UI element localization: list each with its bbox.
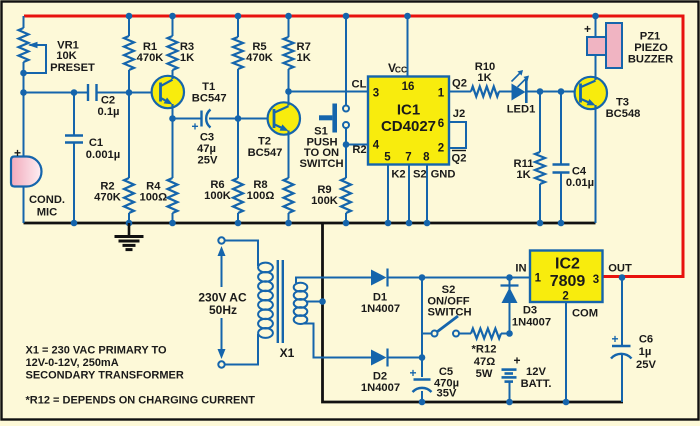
pin 16 Vcc stub xyxy=(407,16,409,77)
wire xyxy=(621,355,623,403)
junction xyxy=(537,88,544,95)
wire xyxy=(539,184,541,223)
svg-text:R1: R1 xyxy=(143,41,157,53)
svg-text:BC547: BC547 xyxy=(192,93,227,105)
resistor R5 xyxy=(233,37,273,69)
transformer X1 primary coil xyxy=(258,263,295,360)
svg-text:1: 1 xyxy=(438,88,445,100)
wire xyxy=(128,70,130,93)
wire xyxy=(595,16,597,38)
capacitor C6 xyxy=(611,332,656,371)
svg-text:CL: CL xyxy=(352,79,367,91)
junction xyxy=(404,13,411,20)
svg-text:SWITCH: SWITCH xyxy=(299,158,343,170)
svg-text:COM: COM xyxy=(572,308,598,320)
resistor R1 xyxy=(124,36,163,70)
wire R2 pin4 net xyxy=(346,144,368,146)
svg-text:50Hz: 50Hz xyxy=(209,303,237,317)
wire xyxy=(23,16,25,28)
resistor R12 xyxy=(471,329,501,381)
svg-text:R5: R5 xyxy=(252,41,266,53)
wire T2 base xyxy=(238,118,274,120)
svg-text:SWITCH: SWITCH xyxy=(427,307,471,319)
diode D1 xyxy=(361,269,400,316)
wire xyxy=(345,16,347,105)
svg-text:3: 3 xyxy=(593,274,599,286)
svg-text:25V: 25V xyxy=(198,155,218,167)
wire xyxy=(288,213,290,223)
junction xyxy=(506,274,513,281)
wire xyxy=(345,128,347,145)
svg-text:OUT: OUT xyxy=(608,263,632,275)
wire xyxy=(172,105,174,119)
svg-text:5: 5 xyxy=(384,152,391,164)
resistor R4 xyxy=(139,178,177,213)
resistor R8 xyxy=(247,178,294,213)
wire xyxy=(225,241,258,267)
svg-text:+: + xyxy=(14,146,21,160)
wire xyxy=(595,106,597,224)
wire xyxy=(449,91,471,93)
svg-text:8: 8 xyxy=(423,152,430,164)
junction xyxy=(406,220,413,227)
svg-text:BC547: BC547 xyxy=(248,147,283,159)
wire xyxy=(528,91,581,93)
wire xyxy=(172,16,174,36)
resistor R3 xyxy=(168,36,195,70)
junction xyxy=(506,330,513,337)
junction xyxy=(126,220,133,227)
junction xyxy=(563,399,570,406)
wire xyxy=(128,16,130,36)
svg-text:+: + xyxy=(611,332,618,346)
svg-text:C3: C3 xyxy=(200,132,214,144)
svg-text:25V: 25V xyxy=(636,359,656,371)
svg-text:7809: 7809 xyxy=(550,273,586,290)
svg-text:12V: 12V xyxy=(526,366,546,378)
LED LED1 xyxy=(507,70,536,116)
junction xyxy=(537,220,544,227)
svg-text:0.001µ: 0.001µ xyxy=(86,149,120,161)
svg-text:T1: T1 xyxy=(202,81,215,93)
wire xyxy=(501,333,510,335)
wire xyxy=(73,93,75,136)
junction xyxy=(619,274,626,281)
svg-text:470K: 470K xyxy=(94,192,121,204)
junction xyxy=(285,13,292,20)
svg-text:C4: C4 xyxy=(572,166,587,178)
junction xyxy=(285,88,292,95)
junction xyxy=(558,220,565,227)
wire xyxy=(388,277,423,279)
junction xyxy=(20,70,27,77)
svg-text:C2: C2 xyxy=(101,95,115,107)
svg-text:BC548: BC548 xyxy=(606,108,641,120)
junction xyxy=(169,220,176,227)
wire T1 base xyxy=(129,92,161,94)
resistor R11 xyxy=(514,152,545,184)
svg-text:35V: 35V xyxy=(437,388,457,400)
svg-text:R3: R3 xyxy=(180,41,194,53)
svg-text:0.01µ: 0.01µ xyxy=(566,177,594,189)
wire secondary bottom xyxy=(303,324,371,358)
wire xyxy=(237,16,239,37)
svg-text:470K: 470K xyxy=(137,52,164,64)
junction xyxy=(343,13,350,20)
svg-text:100Ω: 100Ω xyxy=(139,192,167,204)
wire xyxy=(172,119,174,179)
junction xyxy=(343,141,350,148)
svg-text:1K: 1K xyxy=(297,52,311,64)
svg-text:*R12: *R12 xyxy=(472,344,497,356)
wire CL net xyxy=(289,91,369,93)
wire ground return to lower section xyxy=(323,223,624,402)
wire xyxy=(509,382,511,402)
svg-text:+: + xyxy=(409,366,416,380)
pin 8 stub xyxy=(426,165,428,224)
svg-text:Q2: Q2 xyxy=(452,78,467,90)
resistor R10 xyxy=(471,61,499,97)
junction xyxy=(319,298,326,305)
wire xyxy=(288,16,290,37)
junction xyxy=(506,399,513,406)
junction xyxy=(285,220,292,227)
svg-text:100K: 100K xyxy=(204,190,231,202)
svg-text:2: 2 xyxy=(438,143,444,155)
transistor T3 xyxy=(575,77,641,120)
wire xyxy=(237,119,239,179)
svg-text:Q2: Q2 xyxy=(452,153,467,165)
wire xyxy=(499,91,512,93)
svg-text:T3: T3 xyxy=(616,97,629,109)
transistor T2 xyxy=(248,102,300,159)
wire xyxy=(172,213,174,223)
svg-text:BATT.: BATT. xyxy=(521,378,552,390)
diode D3 xyxy=(501,286,552,329)
svg-text:R7: R7 xyxy=(297,41,311,53)
capacitor C5 xyxy=(409,366,459,400)
svg-text:S2: S2 xyxy=(442,284,456,296)
junction xyxy=(169,13,176,20)
wire secondary centre tap xyxy=(306,301,323,303)
svg-text:CC: CC xyxy=(395,65,407,75)
pin 2 COM stub xyxy=(565,302,567,402)
svg-text:D2: D2 xyxy=(373,371,387,383)
junction xyxy=(235,220,242,227)
junction xyxy=(592,13,599,20)
IC IC1 CD4027 xyxy=(368,77,449,165)
junction xyxy=(343,220,350,227)
svg-text:COND.: COND. xyxy=(29,194,65,206)
svg-text:S2: S2 xyxy=(413,169,427,181)
wire ground bus xyxy=(24,222,596,225)
svg-text:3: 3 xyxy=(373,88,379,100)
svg-text:1K: 1K xyxy=(516,169,530,181)
capacitor C1 xyxy=(65,136,120,162)
svg-text:BUZZER: BUZZER xyxy=(628,54,673,66)
piezo buzzer PZ1 xyxy=(584,22,673,68)
junction xyxy=(424,220,431,227)
battery 12V xyxy=(502,354,552,390)
junction xyxy=(235,115,242,122)
svg-text:47µ: 47µ xyxy=(197,143,216,155)
pin 7 stub xyxy=(408,165,410,224)
wire xyxy=(621,278,623,347)
wire xyxy=(421,278,423,378)
wire secondary top xyxy=(296,278,371,284)
resistor R9 xyxy=(311,178,351,213)
wire xyxy=(595,55,597,77)
pin 5 stub xyxy=(387,165,389,224)
wire xyxy=(345,213,347,223)
svg-text:PIEZO: PIEZO xyxy=(634,42,668,54)
svg-text:C6: C6 xyxy=(639,334,653,346)
junction xyxy=(235,13,242,20)
resistor R7 xyxy=(284,37,311,69)
svg-text:D1: D1 xyxy=(373,292,387,304)
svg-text:IC1: IC1 xyxy=(397,102,420,119)
svg-text:R2: R2 xyxy=(100,181,114,193)
svg-text:6: 6 xyxy=(438,118,444,130)
capacitor C2 xyxy=(88,84,120,118)
wire xyxy=(421,391,423,402)
svg-text:IN: IN xyxy=(515,263,526,275)
wire xyxy=(345,145,347,179)
wire J2 feedback xyxy=(449,122,466,148)
junction xyxy=(558,88,565,95)
IC IC2 7809 xyxy=(530,251,603,303)
svg-text:R9: R9 xyxy=(317,184,331,196)
transformer X1 primary terminals xyxy=(218,237,224,367)
svg-text:1N4007: 1N4007 xyxy=(512,317,551,329)
junction xyxy=(169,115,176,122)
push switch S1 xyxy=(299,104,349,171)
wire xyxy=(560,173,562,224)
svg-text:12V-0-12V, 250mA: 12V-0-12V, 250mA xyxy=(26,357,119,369)
junction xyxy=(419,274,426,281)
capacitor C3 xyxy=(191,110,217,167)
svg-text:X1 = 230 VAC PRIMARY TO: X1 = 230 VAC PRIMARY TO xyxy=(26,345,168,357)
svg-text:PZ1: PZ1 xyxy=(640,31,661,43)
svg-text:LED1: LED1 xyxy=(507,104,536,116)
svg-text:IC2: IC2 xyxy=(555,256,580,273)
switch S2 xyxy=(422,284,472,337)
svg-text:1N4007: 1N4007 xyxy=(361,303,400,315)
svg-text:PRESET: PRESET xyxy=(50,62,95,74)
wire xyxy=(23,62,25,93)
wire xyxy=(459,333,471,335)
svg-text:R8: R8 xyxy=(253,179,267,191)
svg-text:100K: 100K xyxy=(311,195,338,207)
svg-text:10K: 10K xyxy=(56,50,77,62)
wire xyxy=(225,334,258,365)
svg-text:CD4027: CD4027 xyxy=(381,118,436,135)
ground xyxy=(115,223,144,250)
svg-text:+: + xyxy=(513,354,520,368)
transistor T1 xyxy=(152,76,227,108)
wire xyxy=(539,92,541,153)
svg-text:+: + xyxy=(584,22,591,36)
wire xyxy=(24,92,89,94)
wire xyxy=(560,92,562,165)
wire xyxy=(288,131,290,178)
capacitor C4 xyxy=(553,165,595,190)
svg-text:2: 2 xyxy=(562,291,568,303)
svg-text:K2: K2 xyxy=(391,169,405,181)
junction xyxy=(126,89,133,96)
svg-text:1K: 1K xyxy=(180,52,194,64)
svg-text:MIC: MIC xyxy=(37,207,58,219)
wire positive supply rail (red) xyxy=(24,16,683,277)
junction xyxy=(385,220,392,227)
svg-text:X1: X1 xyxy=(280,346,295,360)
wire xyxy=(209,118,238,120)
svg-text:J2: J2 xyxy=(453,108,465,120)
junction xyxy=(20,89,27,96)
wire xyxy=(237,69,239,119)
mains arrow 230V AC xyxy=(198,246,247,359)
svg-text:7: 7 xyxy=(405,152,411,164)
wire xyxy=(172,70,174,77)
svg-text:16: 16 xyxy=(402,81,415,93)
wire xyxy=(388,357,423,359)
svg-text:47Ω: 47Ω xyxy=(474,356,495,368)
wire xyxy=(23,93,25,158)
junction xyxy=(419,399,426,406)
svg-text:C1: C1 xyxy=(89,137,103,149)
svg-text:1K: 1K xyxy=(477,72,491,84)
wire xyxy=(73,143,75,224)
transformer X1 core xyxy=(278,260,283,343)
junction xyxy=(126,13,133,20)
svg-text:C5: C5 xyxy=(439,366,453,378)
condenser microphone MIC xyxy=(11,146,65,219)
wire xyxy=(288,69,290,92)
wire xyxy=(237,213,239,223)
svg-text:1µ: 1µ xyxy=(639,346,652,358)
svg-text:R6: R6 xyxy=(210,179,224,191)
wire xyxy=(509,278,511,334)
svg-text:R4: R4 xyxy=(146,181,161,193)
resistor R2 xyxy=(94,178,134,213)
wire xyxy=(422,277,530,279)
svg-text:5W: 5W xyxy=(476,368,493,380)
svg-text:R11: R11 xyxy=(514,158,534,170)
wire xyxy=(173,118,203,120)
svg-text:R2: R2 xyxy=(352,144,366,156)
svg-text:1N4007: 1N4007 xyxy=(361,382,400,394)
svg-text:100Ω: 100Ω xyxy=(247,190,275,202)
svg-text:470K: 470K xyxy=(246,52,273,64)
wire xyxy=(128,213,130,223)
svg-text:1: 1 xyxy=(535,273,542,285)
svg-text:*R12 = DEPENDS ON CHARGING CUR: *R12 = DEPENDS ON CHARGING CURRENT xyxy=(26,395,256,407)
svg-text:T2: T2 xyxy=(258,136,271,148)
svg-text:SECONDARY TRANSFORMER: SECONDARY TRANSFORMER xyxy=(26,370,184,382)
junction xyxy=(419,354,426,361)
diode D2 xyxy=(361,349,400,395)
junction xyxy=(71,89,78,96)
transformer X1 secondary coil xyxy=(294,283,308,324)
wire xyxy=(97,92,130,94)
wire xyxy=(23,186,25,223)
svg-text:GND: GND xyxy=(431,169,456,181)
junction xyxy=(71,220,78,227)
note transformer spec xyxy=(26,345,184,382)
svg-text:+: + xyxy=(191,120,198,134)
svg-text:0.1µ: 0.1µ xyxy=(98,106,120,118)
resistor R6 xyxy=(204,178,243,213)
svg-text:D3: D3 xyxy=(523,305,537,317)
wire xyxy=(288,92,290,103)
wire xyxy=(128,93,130,179)
preset VR1 xyxy=(19,28,96,74)
svg-text:4: 4 xyxy=(373,140,380,152)
